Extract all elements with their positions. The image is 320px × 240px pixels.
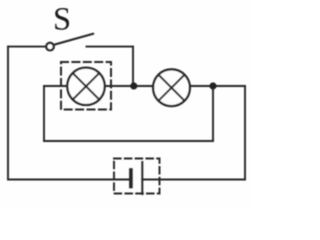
battery cell negative plate (short thick) [129, 170, 133, 187]
wire lamp L2 right lead [190, 85, 213, 87]
wire inner loop left vertical [43, 86, 45, 141]
wire left-top from outer loop to switch pivot [8, 46, 46, 48]
wire battery to outer right [142, 179, 245, 181]
dashed box around battery [114, 159, 160, 194]
lamp L1 circle [67, 68, 104, 105]
node A junction dot [130, 82, 137, 89]
switch S lever [54, 34, 93, 45]
svg-text:S: S [53, 1, 71, 37]
dashed box around lamp L1 [61, 62, 111, 110]
wire corner down to node A [132, 47, 134, 86]
switch S pivot [46, 43, 54, 51]
lamp L1 cross [73, 73, 99, 99]
wire switch fixed contact to corner [87, 46, 134, 48]
node B junction dot [209, 82, 216, 89]
wire node B to outer right top [213, 85, 245, 87]
wire lamp L1 left lead [44, 85, 68, 87]
battery cell positive plate (long thin) [141, 162, 143, 194]
lamp L2 cross [159, 75, 185, 101]
wire inner loop bottom [44, 140, 213, 142]
wire outer bottom to battery [8, 179, 130, 181]
wire outer right vertical [244, 86, 246, 180]
wire between lamp L1 and lamp L2 [105, 85, 154, 87]
wire outer left vertical [7, 47, 9, 180]
wire inner loop right vertical [212, 86, 214, 141]
lamp L2 circle [153, 69, 190, 106]
